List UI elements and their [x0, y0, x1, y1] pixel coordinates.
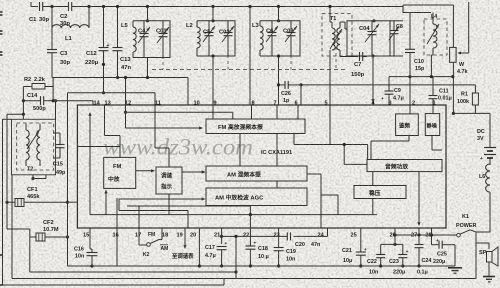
- wire: pin1 mute feed: [432, 105, 434, 114]
- capacitor C3: [51, 28, 53, 50]
- transformer T2 (dashed): [17, 123, 54, 170]
- transformer T1 (dashed can): [322, 14, 352, 57]
- wire: pin13 to FM IF: [104, 105, 106, 136]
- transformer T2 box: [12, 119, 56, 175]
- inductor L3: [260, 26, 263, 50]
- wire: K1 to battery column: [476, 231, 490, 233]
- wire: pin12 to FM block: [125, 105, 127, 112]
- box: L3/C6/C03 tank: [260, 21, 300, 56]
- wire: T2 bottom tap: [32, 175, 34, 179]
- wire: pin26 split: [394, 228, 396, 244]
- wire: pins1-3 top bus: [389, 76, 453, 78]
- block: audio power amp: [367, 160, 442, 172]
- wire: pin14 internal arrow: [89, 116, 91, 139]
- wire: power to speaker: [475, 232, 477, 279]
- wire: top bus C2 to L4 box: [72, 6, 403, 8]
- wire: C14 corner to left rail: [22, 101, 24, 115]
- wire: tuning ind to AM block: [182, 171, 203, 173]
- wire: internal bus mid: [127, 205, 250, 207]
- wire: C4 tank to AGC bus: [147, 58, 149, 78]
- capacitor C25 220u: [432, 244, 439, 246]
- variable capacitor C5: [208, 21, 210, 33]
- wire: AM block out to pin 24: [307, 173, 321, 175]
- block: AM IF det AGC: [206, 188, 307, 206]
- wire: R2C14 to pin 14: [53, 100, 93, 102]
- wire: antenna stub: [30, 2, 32, 7]
- capacitor C22 10n: [380, 244, 382, 254]
- capacitor C10 15p: [409, 13, 411, 50]
- wire: C26 node to R1: [301, 84, 475, 86]
- capacitor C24 0.1u: [418, 228, 420, 245]
- wire: supply rail to battery: [453, 112, 490, 114]
- wire: C3 bus: [52, 78, 54, 85]
- block: FM discriminator: [396, 114, 419, 136]
- wire: IC left internal stub: [77, 146, 120, 148]
- wire: AM filter loop rail: [30, 271, 236, 273]
- wire: pin9 into FM block: [212, 105, 214, 119]
- wire: internal bus 2: [90, 214, 377, 216]
- box: oscillator L4 enclosure: [403, 7, 431, 13]
- resistor R1 100k: [474, 85, 476, 93]
- inductor L2: [197, 27, 200, 48]
- variable capacitor C04: [371, 21, 373, 32]
- wire: FM IF input arrow: [125, 112, 127, 128]
- wire: pin21 link to pin24: [222, 235, 287, 237]
- variable capacitor C4: [143, 21, 145, 34]
- wire: IC left edge to CF1 net: [68, 201, 78, 203]
- wire: FM block to audio amp: [293, 134, 295, 145]
- wire: pin2 disc feed: [409, 105, 411, 114]
- capacitor C17 4.7u: [221, 228, 223, 244]
- wire: L4 bottom to bus: [432, 48, 434, 55]
- wire: tuning bottom: [168, 194, 170, 215]
- block: FM IF amp: [104, 157, 136, 188]
- bottom rail 2 (outer): [12, 278, 476, 280]
- block: regulator: [354, 186, 406, 199]
- wire: pin7 into FM block: [276, 105, 278, 119]
- wire: AM blocks link: [276, 181, 278, 188]
- capacitor C20 47n: [286, 232, 288, 240]
- wire: bus to L3 tank: [278, 7, 280, 21]
- wire: L2 tank to pin 9: [212, 56, 214, 105]
- wire: left loop from bus: [67, 93, 69, 202]
- box: L2/C5/C02 tank: [197, 21, 235, 56]
- block: tuning indicator: [156, 167, 182, 194]
- box: L5/C4/C01 tank: [133, 21, 170, 58]
- capacitor C12 220u: [103, 7, 105, 48]
- transformer T1 windings: [332, 28, 335, 50]
- potentiometer W 4.7k: [450, 47, 457, 62]
- wire: FM IF to tuning ind: [136, 170, 152, 172]
- capacitor C9 4.7u: [388, 77, 390, 91]
- wire: long drop bus to pin 8: [249, 7, 251, 106]
- trimmer C8: [390, 20, 403, 22]
- wire: L3 tank to pin 7: [278, 56, 280, 105]
- wire: pin5 branch to audio amp: [343, 145, 345, 165]
- block: FM RF mixer osc: [206, 119, 305, 134]
- wire: pin16 drop: [116, 228, 118, 266]
- wire: AGC arrow into block: [118, 199, 120, 211]
- capacitor C13 47n: [117, 7, 119, 48]
- transformer T2 windings: [26, 130, 29, 160]
- inductor L5: [133, 27, 136, 52]
- wire: K1 power line: [395, 234, 457, 236]
- wire: pin11 to tuning indicator: [154, 105, 156, 148]
- wire: pin28 to C25: [431, 228, 433, 245]
- bottom rail 1 (signal gnd): [68, 265, 456, 267]
- wire: pin 2 drop: [409, 53, 411, 106]
- wire: T1 secondary top to C04 box: [344, 22, 346, 29]
- switch K2 FM/AM: [138, 228, 140, 245]
- wire: C04 tank to pin 4: [372, 56, 374, 96]
- wire: drop to bottom rail: [235, 236, 237, 278]
- wire: pin19 tuning meter arrow: [184, 228, 186, 245]
- capacitor C14 500p: [22, 87, 24, 101]
- capacitor C1: [39, 2, 41, 11]
- wire: pin6 into FM block: [297, 105, 299, 119]
- wire: audio amp to pin27 arrow: [418, 172, 420, 222]
- capacitor C16 10n: [89, 228, 91, 249]
- wire: internal bus 1: [119, 210, 188, 212]
- IC CXA1191 outline: [77, 105, 446, 228]
- wire: pin6 from C26: [300, 85, 302, 105]
- wire: pin20 drop: [198, 228, 200, 266]
- capacitor C19 10n: [278, 228, 280, 248]
- wire: pin13-11 link bus: [68, 92, 156, 94]
- variable capacitor C6: [271, 21, 273, 33]
- wire: disc to audio amp: [408, 136, 410, 142]
- wire: pin8 into FM block: [251, 105, 253, 119]
- inductor L6: [486, 164, 490, 192]
- capacitor C11 0.01u: [432, 77, 434, 96]
- wire: AGC to pin 22: [249, 206, 251, 215]
- capacitor C7 150p: [359, 52, 361, 61]
- wire: FM IF bottom arrow: [105, 192, 107, 215]
- block: AM mixer osc: [206, 166, 307, 181]
- wire: T2 top feed: [22, 114, 24, 119]
- wire: audio amp to regulator: [372, 172, 374, 186]
- trimmer C02: [227, 21, 229, 33]
- capacitor C2: [68, 2, 70, 11]
- wire: bus to T1 primary: [329, 7, 331, 23]
- wire: pin14 arrow stem: [89, 139, 91, 215]
- wire: top bus C1 to C2: [43, 6, 68, 8]
- wire: T1 secondary bottom to C7: [339, 50, 341, 57]
- inductor L1: [51, 7, 53, 29]
- tuning gang dashed link: [152, 69, 345, 71]
- wire: pin12 drop: [125, 78, 127, 106]
- block: mute: [425, 114, 439, 136]
- wire: regulator down: [372, 199, 374, 215]
- inductor L4 (dashed box): [424, 19, 447, 55]
- wire: FM block to AM block: [239, 134, 241, 167]
- wire: bus to L2 tank: [212, 7, 214, 21]
- wire: bus to C4 box: [147, 7, 149, 21]
- wire: pin5 internal drop: [329, 105, 331, 145]
- capacitor C15 49p: [53, 132, 60, 134]
- wire: left outer rail: [2, 119, 4, 285]
- wire: W to supply node: [452, 77, 454, 114]
- capacitor C23 220u: [402, 244, 404, 254]
- bottom rail 3 (outermost): [3, 284, 225, 286]
- capacitor C26 1p: [279, 84, 285, 86]
- wire: AGC top bus y77: [52, 77, 188, 79]
- capacitor C21 10u: [360, 228, 362, 252]
- trimmer C01: [162, 21, 164, 34]
- left margin scan fragments: [0, 11, 3, 13]
- box: C04 tank: [347, 21, 390, 56]
- trimmer C03: [290, 21, 292, 33]
- wire: mute down: [431, 136, 433, 151]
- ground at C25: [448, 267, 462, 269]
- capacitor C18 10u: [249, 228, 251, 246]
- ground at speaker: [483, 276, 495, 278]
